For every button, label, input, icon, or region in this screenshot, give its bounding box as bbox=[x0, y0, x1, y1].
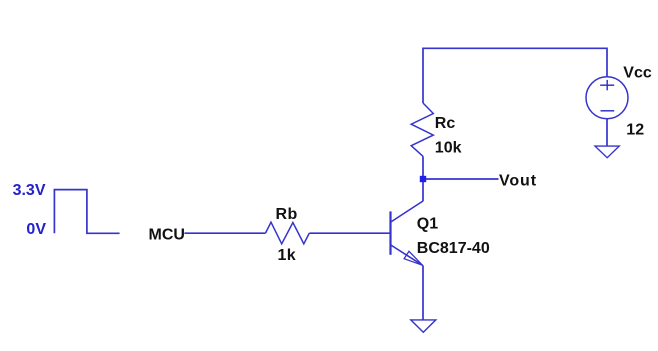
node collector junction bbox=[420, 176, 426, 182]
resistor Rb bbox=[266, 222, 310, 244]
wire collector vertical bbox=[422, 179, 424, 201]
wire Rb to Q1 base bbox=[309, 232, 390, 234]
svg-text:Rb: Rb bbox=[276, 206, 298, 223]
svg-text:Vout: Vout bbox=[499, 173, 537, 190]
transistor Q1 bbox=[391, 201, 424, 265]
ground GND2 (emitter) bbox=[411, 320, 436, 332]
svg-text:Q1: Q1 bbox=[417, 216, 438, 233]
svg-text:Rc: Rc bbox=[435, 115, 456, 132]
wire top rail bbox=[423, 48, 607, 103]
wire source to ground bbox=[606, 119, 608, 146]
wire Vout bbox=[426, 178, 499, 180]
svg-text:12: 12 bbox=[626, 121, 644, 138]
wire MCU to Rb bbox=[184, 232, 265, 234]
svg-text:Vcc: Vcc bbox=[623, 64, 652, 81]
svg-text:3.3V: 3.3V bbox=[13, 182, 46, 199]
pulse waveform V1 bbox=[54, 190, 119, 234]
svg-text:10k: 10k bbox=[435, 140, 462, 157]
wire node to Rc bbox=[422, 156, 424, 179]
ground GND1 (Vcc) bbox=[595, 146, 619, 158]
resistor Rc bbox=[411, 103, 433, 156]
wire emitter to ground bbox=[422, 265, 424, 320]
svg-text:MCU: MCU bbox=[149, 227, 185, 244]
svg-text:1k: 1k bbox=[278, 247, 297, 264]
voltage source Vcc bbox=[586, 77, 628, 119]
svg-text:0V: 0V bbox=[26, 221, 46, 238]
svg-text:BC817-40: BC817-40 bbox=[417, 240, 490, 257]
